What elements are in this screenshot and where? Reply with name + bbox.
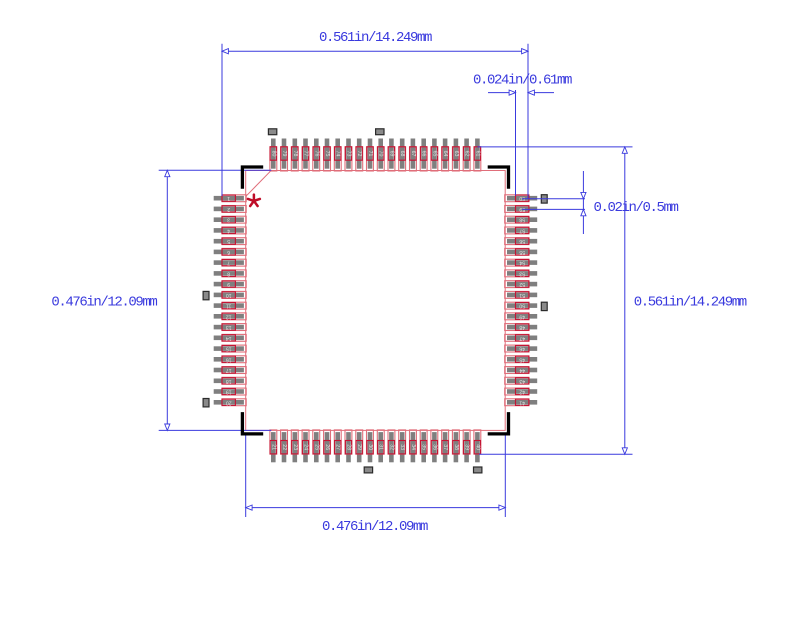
svg-text:27: 27 xyxy=(335,444,341,450)
svg-text:25: 25 xyxy=(313,444,319,450)
pad 10 (left side) xyxy=(214,291,247,298)
pad 54 (right side) xyxy=(505,259,538,266)
svg-text:19: 19 xyxy=(226,389,232,395)
svg-text:0.476in/12.09mm: 0.476in/12.09mm xyxy=(51,295,157,311)
pad 19 (left side) xyxy=(214,388,247,395)
dimension: body width 0.476in/12.09mm (bottom) xyxy=(246,434,506,535)
svg-text:34: 34 xyxy=(410,444,416,450)
pad 4 (left side) xyxy=(214,227,247,234)
svg-text:46: 46 xyxy=(519,346,525,352)
svg-text:58: 58 xyxy=(519,217,525,223)
svg-text:47: 47 xyxy=(519,335,525,341)
pad 78 (top side) xyxy=(291,139,298,172)
pad 24 (bottom side) xyxy=(302,430,309,462)
pad 28 (bottom side) xyxy=(345,430,352,462)
pin 1 asterisk marker xyxy=(248,195,260,206)
svg-text:80: 80 xyxy=(270,151,276,157)
svg-text:64: 64 xyxy=(442,151,448,157)
pad 1 (left side) xyxy=(214,195,247,202)
svg-text:6: 6 xyxy=(227,249,230,255)
pad 57 (right side) xyxy=(505,227,538,234)
pad 39 (bottom side) xyxy=(463,430,470,462)
svg-text:16: 16 xyxy=(226,356,232,362)
pin 40 marker xyxy=(474,467,482,473)
pad 13 (left side) xyxy=(214,324,247,331)
svg-text:15: 15 xyxy=(226,346,232,352)
pad 17 (left side) xyxy=(214,367,247,374)
pad 76 (top side) xyxy=(313,139,320,172)
pad 70 (top side) xyxy=(377,139,384,172)
svg-text:74: 74 xyxy=(335,151,341,157)
pad 43 (right side) xyxy=(505,377,538,384)
svg-text:50: 50 xyxy=(519,303,525,309)
pad 68 (top side) xyxy=(399,139,406,172)
svg-text:13: 13 xyxy=(226,324,232,330)
svg-text:49: 49 xyxy=(519,313,525,319)
pad 62 (top side) xyxy=(463,139,470,172)
pad 59 (right side) xyxy=(505,206,538,213)
pad 72 (top side) xyxy=(356,139,363,172)
svg-text:32: 32 xyxy=(388,444,394,450)
svg-text:69: 69 xyxy=(388,151,394,157)
svg-text:10: 10 xyxy=(226,292,232,298)
svg-text:65: 65 xyxy=(431,151,437,157)
pad 65 (top side) xyxy=(431,139,438,172)
svg-text:7: 7 xyxy=(227,260,230,266)
svg-text:0.561in/14.249mm: 0.561in/14.249mm xyxy=(319,30,432,46)
pin 1 chamfer diagonal xyxy=(246,170,271,196)
svg-text:62: 62 xyxy=(464,151,470,157)
svg-text:73: 73 xyxy=(346,151,352,157)
pin 30 marker xyxy=(364,467,372,473)
pad 55 (right side) xyxy=(505,248,538,255)
pad 61 (top side) xyxy=(474,139,481,172)
pad 30 (bottom side) xyxy=(367,430,374,462)
pad 79 (top side) xyxy=(281,139,288,172)
svg-text:38: 38 xyxy=(453,444,459,450)
svg-text:11: 11 xyxy=(226,303,231,309)
pad 71 (top side) xyxy=(367,139,374,172)
svg-text:21: 21 xyxy=(270,444,276,450)
pad 3 (left side) xyxy=(214,216,247,223)
pad 51 (right side) xyxy=(505,291,538,298)
pad 21 (bottom side) xyxy=(270,430,277,462)
svg-text:76: 76 xyxy=(313,151,319,157)
pad 18 (left side) xyxy=(214,377,247,384)
pin 50 marker xyxy=(541,302,547,310)
pad 45 (right side) xyxy=(505,356,538,363)
svg-text:26: 26 xyxy=(324,444,330,450)
svg-text:14: 14 xyxy=(226,335,232,341)
svg-text:61: 61 xyxy=(474,151,480,157)
svg-text:56: 56 xyxy=(519,238,525,244)
svg-text:45: 45 xyxy=(519,356,525,362)
svg-text:2: 2 xyxy=(227,206,230,212)
pad 36 (bottom side) xyxy=(431,430,438,462)
pad 37 (bottom side) xyxy=(442,430,449,462)
corner bracket bottom-right xyxy=(488,412,509,434)
pin 80 marker xyxy=(268,129,276,135)
svg-text:28: 28 xyxy=(346,444,352,450)
pad 60 (right side) xyxy=(505,195,538,202)
svg-text:39: 39 xyxy=(464,444,470,450)
pad 9 (left side) xyxy=(214,281,247,288)
pad 22 (bottom side) xyxy=(281,430,288,462)
svg-text:54: 54 xyxy=(519,260,525,266)
pad 66 (top side) xyxy=(420,139,427,172)
dimension: body height 0.476in/12.09mm (left) xyxy=(51,170,271,430)
pin 20 marker xyxy=(203,399,209,407)
pad 77 (top side) xyxy=(302,139,309,172)
svg-text:53: 53 xyxy=(519,270,525,276)
svg-text:60: 60 xyxy=(519,195,525,201)
pad 47 (right side) xyxy=(505,334,538,341)
pad 25 (bottom side) xyxy=(313,430,320,462)
svg-text:79: 79 xyxy=(281,151,287,157)
pad 73 (top side) xyxy=(345,139,352,172)
svg-text:67: 67 xyxy=(410,151,416,157)
dimension: top overall width 0.561in/14.249mm xyxy=(222,30,528,199)
pad 7 (left side) xyxy=(214,259,247,266)
pad 63 (top side) xyxy=(452,139,459,172)
svg-text:5: 5 xyxy=(227,238,230,244)
svg-text:52: 52 xyxy=(519,281,525,287)
pad 80 (top side) xyxy=(270,139,277,172)
svg-text:18: 18 xyxy=(226,378,232,384)
svg-text:41: 41 xyxy=(519,399,525,405)
pad 14 (left side) xyxy=(214,334,247,341)
pad 8 (left side) xyxy=(214,270,247,277)
pad 52 (right side) xyxy=(505,281,538,288)
svg-text:0.024in/0.61mm: 0.024in/0.61mm xyxy=(473,73,572,89)
corner bracket top-left xyxy=(242,167,263,189)
pad 74 (top side) xyxy=(334,139,341,172)
svg-text:37: 37 xyxy=(442,444,448,450)
svg-text:40: 40 xyxy=(474,444,480,450)
svg-text:12: 12 xyxy=(226,313,232,319)
dimension: pad width 0.024in/0.61mm xyxy=(473,73,572,196)
svg-text:63: 63 xyxy=(453,151,459,157)
pad 27 (bottom side) xyxy=(334,430,341,462)
svg-text:9: 9 xyxy=(227,281,230,287)
pad 12 (left side) xyxy=(214,313,247,320)
svg-text:42: 42 xyxy=(519,389,525,395)
svg-text:0.476in/12.09mm: 0.476in/12.09mm xyxy=(322,519,428,535)
pad 6 (left side) xyxy=(214,248,247,255)
pad 29 (bottom side) xyxy=(356,430,363,462)
pad 38 (bottom side) xyxy=(452,430,459,462)
svg-text:17: 17 xyxy=(226,367,232,373)
pad 33 (bottom side) xyxy=(399,430,406,462)
pad 34 (bottom side) xyxy=(410,430,417,462)
pin 70 marker xyxy=(376,129,384,135)
svg-text:43: 43 xyxy=(519,378,525,384)
svg-text:66: 66 xyxy=(421,151,427,157)
svg-text:0.561in/14.249mm: 0.561in/14.249mm xyxy=(634,295,747,311)
package body outline xyxy=(246,171,506,431)
pad 75 (top side) xyxy=(324,139,331,172)
pad 35 (bottom side) xyxy=(420,430,427,462)
pin 10 marker xyxy=(203,291,209,299)
svg-text:4: 4 xyxy=(227,227,230,233)
svg-text:36: 36 xyxy=(431,444,437,450)
pad 2 (left side) xyxy=(214,206,247,213)
svg-text:68: 68 xyxy=(399,151,405,157)
svg-text:51: 51 xyxy=(519,292,525,298)
pad 56 (right side) xyxy=(505,238,538,245)
svg-text:1: 1 xyxy=(227,195,230,201)
svg-text:8: 8 xyxy=(227,270,230,276)
svg-text:71: 71 xyxy=(367,151,373,157)
pad 16 (left side) xyxy=(214,356,247,363)
svg-text:22: 22 xyxy=(281,444,287,450)
svg-text:3: 3 xyxy=(227,217,230,223)
svg-text:75: 75 xyxy=(324,151,330,157)
svg-text:44: 44 xyxy=(519,367,525,373)
corner bracket top-right xyxy=(488,167,509,189)
corner bracket bottom-left xyxy=(242,412,263,434)
pad 69 (top side) xyxy=(388,139,395,172)
svg-text:70: 70 xyxy=(378,151,384,157)
svg-text:35: 35 xyxy=(421,444,427,450)
pad 67 (top side) xyxy=(410,139,417,172)
pad 31 (bottom side) xyxy=(377,430,384,462)
svg-text:77: 77 xyxy=(303,151,309,157)
dimension: overall height 0.561in/14.249mm (right) xyxy=(478,147,747,454)
pad 32 (bottom side) xyxy=(388,430,395,462)
pad 48 (right side) xyxy=(505,324,538,331)
pad 11 (left side) xyxy=(214,302,247,309)
svg-text:30: 30 xyxy=(367,444,373,450)
dimension: pad pitch 0.02in/0.5mm xyxy=(522,171,679,234)
pad 46 (right side) xyxy=(505,345,538,352)
pin 60 marker xyxy=(541,195,547,203)
pad 50 (right side) xyxy=(505,302,538,309)
svg-text:24: 24 xyxy=(303,444,309,450)
pad 41 (right side) xyxy=(505,399,538,406)
svg-text:23: 23 xyxy=(292,444,298,450)
svg-text:57: 57 xyxy=(519,227,525,233)
svg-text:55: 55 xyxy=(519,249,525,255)
svg-text:31: 31 xyxy=(378,444,384,450)
pad 44 (right side) xyxy=(505,367,538,374)
svg-text:20: 20 xyxy=(226,399,232,405)
pad 5 (left side) xyxy=(214,238,247,245)
svg-text:33: 33 xyxy=(399,444,405,450)
pad 53 (right side) xyxy=(505,270,538,277)
svg-text:48: 48 xyxy=(519,324,525,330)
pad 42 (right side) xyxy=(505,388,538,395)
pad 40 (bottom side) xyxy=(474,430,481,462)
svg-text:0.02in/0.5mm: 0.02in/0.5mm xyxy=(594,200,679,216)
pad 26 (bottom side) xyxy=(324,430,331,462)
pad 15 (left side) xyxy=(214,345,247,352)
pad 64 (top side) xyxy=(442,139,449,172)
svg-text:29: 29 xyxy=(356,444,362,450)
pad 23 (bottom side) xyxy=(291,430,298,462)
pad 20 (left side) xyxy=(214,399,247,406)
pad 49 (right side) xyxy=(505,313,538,320)
svg-text:72: 72 xyxy=(356,151,362,157)
pad 58 (right side) xyxy=(505,216,538,223)
svg-text:78: 78 xyxy=(292,151,298,157)
